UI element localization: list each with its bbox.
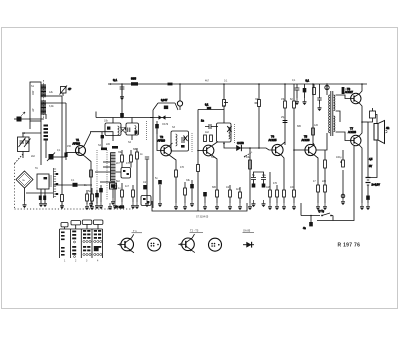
wire speaker down [368, 140, 377, 178]
wire T3 emitter [212, 156, 217, 191]
ecap bottom [309, 215, 313, 227]
svg-text:4Ω: 4Ω [386, 127, 389, 130]
gnd osc3 [113, 202, 117, 209]
resistor near T6 [342, 87, 345, 94]
primary winding [329, 95, 330, 133]
gnd 192 [190, 200, 194, 207]
resistor T3 emitter [216, 190, 219, 203]
wire T6 collector up [360, 84, 362, 94]
cap blob on mid wire left [39, 196, 42, 201]
col3 rings bottom [83, 253, 91, 255]
blob on rail 2 [168, 83, 173, 86]
gnd 297 [295, 98, 299, 105]
capacitor C near rail left [120, 84, 125, 93]
svg-text:4: 4 [97, 260, 99, 263]
wire T7 long down [317, 146, 354, 221]
wire agc vertical long [197, 110, 199, 212]
wire osc stub1 [103, 161, 110, 163]
wire AGC down [62, 93, 64, 96]
trapezoid top [153, 103, 178, 110]
transistor T6 [350, 93, 361, 104]
gnd bus62 [60, 202, 64, 209]
svg-text:220: 220 [106, 143, 111, 146]
wire T1 collector up [84, 132, 113, 146]
ecap osc [99, 185, 103, 202]
svg-text:T1: T1 [76, 138, 80, 142]
svg-text:470: 470 [180, 166, 185, 169]
wire agc feedback [198, 109, 224, 111]
resistor osc1 [121, 150, 124, 168]
ground under C rail left [120, 93, 124, 100]
tuning gang box [18, 137, 30, 152]
gnd 295 [292, 203, 296, 210]
wire T5 collector [313, 143, 314, 145]
pickup element box [37, 174, 49, 189]
svg-text:OA79: OA79 [237, 141, 244, 145]
resistor T3 base1 [204, 135, 207, 142]
coil former box [30, 82, 41, 121]
wire y148 osc [101, 132, 103, 148]
gnd cap2 [262, 200, 266, 207]
legend transistor 2 [178, 234, 195, 253]
gnd 147 [145, 200, 149, 207]
coil bottom wire [45, 114, 47, 119]
wire gang top [23, 133, 41, 137]
ecap 97 [95, 190, 99, 203]
dashed mech link [15, 154, 24, 164]
legend pinout 1 [148, 238, 161, 251]
resistor on drop 259 [255, 100, 261, 107]
resistor T4 em [283, 190, 286, 203]
wire switch right [331, 216, 333, 221]
wire 91 down [90, 188, 92, 200]
osc box small [121, 168, 131, 179]
svg-text:T4: T4 [271, 135, 275, 139]
contact blobs column [44, 125, 49, 141]
gnd 325 [323, 203, 327, 210]
svg-text:3V: 3V [369, 165, 372, 168]
circle component top [121, 83, 182, 110]
gnd T3 em [215, 203, 219, 210]
svg-text:0,1: 0,1 [292, 79, 296, 82]
wire x313 rail down [312, 84, 314, 145]
resistor under T2 [175, 170, 178, 203]
wire antenna to coil [22, 118, 45, 120]
gnd battery [366, 203, 370, 210]
svg-text:33k: 33k [186, 179, 191, 182]
svg-text:2×4,5V: 2×4,5V [372, 183, 381, 187]
svg-text:C1: C1 [22, 132, 26, 135]
antenna arrow [21, 112, 25, 116]
svg-text:100: 100 [290, 186, 295, 189]
osc coil left line [110, 153, 112, 182]
svg-text:12k: 12k [49, 91, 54, 94]
junction y117 [121, 117, 123, 119]
svg-text:1: 1 [64, 260, 66, 263]
left bus x66 [65, 103, 67, 160]
wire x96 elbow [95, 112, 97, 118]
gnd 343 [341, 198, 345, 205]
resistor osc low2 [132, 185, 135, 202]
dotted core IF3 [234, 124, 236, 144]
svg-text:150: 150 [67, 145, 72, 148]
svg-text:10n: 10n [226, 186, 231, 189]
transistor T4 [272, 144, 283, 155]
dashed box bottom edge [15, 208, 134, 210]
svg-text:5k6: 5k6 [88, 190, 93, 193]
variable cap C1b [24, 139, 31, 148]
wire x224 rail down [223, 84, 225, 123]
svg-text:47: 47 [313, 180, 316, 183]
wire bus to T1 base [66, 152, 76, 154]
resistor T3 base2 [210, 135, 213, 142]
svg-text:T 1: T 1 [133, 229, 137, 233]
cap blob trap [164, 106, 168, 110]
gnd 185 [183, 203, 187, 210]
svg-text:0,1: 0,1 [224, 80, 228, 83]
dotted core IF2 [191, 133, 193, 153]
wire T2 base comp [157, 145, 161, 151]
transistor T3 [203, 145, 214, 156]
svg-text:5n: 5n [155, 177, 158, 180]
svg-text:0,1: 0,1 [205, 104, 209, 107]
svg-text:0,1: 0,1 [57, 149, 61, 152]
junction rail 259 [258, 83, 260, 85]
svg-text:10k: 10k [104, 120, 109, 123]
wire x41 down [40, 121, 42, 165]
tab 2 [71, 221, 81, 230]
comb dark taps [56, 173, 59, 195]
resistor on x198 [197, 165, 200, 172]
left bus x62 [61, 96, 63, 208]
junction 362 [361, 121, 363, 123]
IF2 blob [181, 145, 185, 148]
svg-text:4n: 4n [303, 227, 306, 230]
resistor T5 base low [293, 150, 296, 203]
gnd 230 [228, 203, 232, 210]
wire bottom horizontal [301, 215, 320, 217]
trimmer cluster [47, 153, 55, 162]
diode detector [224, 142, 250, 151]
ecap 160 [158, 180, 162, 184]
variable cap C1a [19, 139, 26, 148]
svg-text:3,9k: 3,9k [49, 105, 54, 108]
legend pinout 2 [209, 238, 222, 251]
resistor 343 [342, 150, 345, 167]
coil tap wire right mid [46, 102, 66, 104]
wire x122 rail down [121, 84, 123, 111]
wire x285 rail down [284, 84, 286, 145]
svg-text:0,1: 0,1 [113, 78, 118, 82]
gnd T4 em [282, 203, 286, 210]
secondary winding top [334, 95, 335, 111]
antenna terminal [14, 117, 22, 122]
gnd 362 [360, 203, 364, 210]
col4 rings bottom [94, 253, 102, 255]
wire x270 up [269, 172, 271, 183]
cap under T2 [145, 157, 149, 167]
wire coil left edge down [29, 121, 31, 129]
svg-text:AC126: AC126 [302, 138, 310, 142]
gnd osc5 [131, 202, 135, 209]
svg-text:MW: MW [32, 90, 35, 95]
svg-text:R 197 76: R 197 76 [338, 243, 361, 249]
osc box marks [123, 170, 129, 175]
svg-text:S3: S3 [172, 126, 176, 129]
pot wiper dashed [244, 152, 252, 157]
svg-text:680: 680 [212, 186, 217, 189]
wire 147 [146, 167, 148, 200]
wire pickup bottom right [44, 189, 46, 203]
svg-text:4P: 4P [68, 87, 71, 91]
gnd T1 emitter [89, 200, 93, 207]
coil core dashed [43, 80, 45, 118]
resistor 277 low [276, 185, 279, 203]
wire T3 base left [198, 150, 203, 152]
cap at IF3 left [205, 124, 218, 129]
IF1 box B [126, 123, 139, 135]
shield bottom L [152, 201, 247, 211]
wire osc bottom caps [113, 183, 117, 202]
svg-text:4k7: 4k7 [236, 188, 241, 191]
svg-text:8k2: 8k2 [116, 180, 121, 183]
dotted switch line x107 [106, 150, 108, 200]
gnd 270 [268, 203, 272, 210]
svg-text:4k7: 4k7 [205, 80, 210, 83]
gnd osc coil [111, 198, 115, 205]
wire det down [156, 128, 158, 145]
ecap 192 [190, 180, 194, 200]
components under T2 left [136, 148, 139, 165]
gnd under T2 [135, 202, 139, 209]
junction 343 [340, 161, 342, 163]
svg-text:T5: T5 [304, 135, 308, 139]
svg-text:885: 885 [131, 77, 136, 81]
junction rail 285 [284, 83, 286, 85]
transistor T5 [305, 144, 316, 155]
wire T2 collector [170, 143, 173, 146]
resistor 325 [324, 150, 327, 185]
svg-text:1k: 1k [140, 153, 143, 156]
gnd pickup right [43, 200, 47, 207]
svg-text:100µ: 100µ [336, 156, 342, 159]
svg-text:470: 470 [126, 162, 131, 165]
svg-text:4n7: 4n7 [125, 185, 130, 188]
wire sec mid tap [336, 111, 340, 122]
cap pair 1 [251, 178, 256, 188]
wire right bus down [367, 122, 369, 177]
fuse blob on rail [131, 82, 138, 85]
svg-text:2k7: 2k7 [116, 162, 121, 165]
svg-text:25µ: 25µ [281, 116, 286, 119]
wire T5 emitter [314, 155, 318, 185]
ecap ring 343 [341, 194, 345, 198]
wire T3 collector [212, 142, 218, 146]
svg-text:0,1: 0,1 [71, 179, 75, 182]
boxA bottom lead [112, 136, 114, 142]
col2 contacts top [72, 231, 76, 240]
svg-text:T2 - T5: T2 - T5 [190, 229, 199, 233]
table frame columns [60, 229, 103, 258]
IF2 box [171, 131, 189, 151]
legend diode [243, 242, 254, 248]
osc blobs top [101, 146, 118, 150]
osc coil bottom block [110, 183, 117, 198]
ecap on y185 [73, 183, 78, 187]
ecap mid bottom [143, 185, 147, 189]
IF2 X mark [184, 136, 188, 142]
gnd T5 em [316, 203, 320, 210]
wire mid horizontal [26, 192, 53, 194]
dashed box left edge [14, 164, 16, 210]
svg-text:S7 3104 05: S7 3104 05 [196, 216, 209, 219]
gnd 318 [318, 104, 322, 111]
svg-text:1k2: 1k2 [205, 131, 210, 134]
svg-text:3: 3 [86, 260, 88, 263]
ecap 205 [203, 192, 207, 196]
wire pickup bottom left [40, 189, 42, 203]
ground diamond [23, 201, 27, 208]
gnd cap1 [252, 200, 256, 207]
svg-text:TA: TA [35, 167, 38, 170]
ecap det [155, 121, 159, 134]
svg-text:OA 85: OA 85 [243, 228, 251, 232]
junction rail 313 [312, 83, 314, 85]
tab 1 [61, 223, 68, 230]
boxB top lead [131, 118, 133, 124]
gnd pot [248, 203, 252, 210]
wire osc mid2 [100, 181, 115, 183]
resistor 314 [313, 84, 316, 95]
secondary winding bottom [334, 116, 335, 132]
junction rail 362 [361, 83, 363, 85]
label legend T2-T5 [190, 229, 204, 233]
ecap above boxes [120, 111, 124, 117]
resistor 230 low [229, 185, 232, 203]
svg-text:220: 220 [322, 180, 327, 183]
gnd 205 [203, 203, 207, 210]
table numbers [64, 260, 99, 263]
wire T4 emitter [281, 155, 284, 190]
label legend diode [243, 228, 255, 232]
wire osc mid1 [95, 171, 121, 173]
svg-text:1n: 1n [118, 187, 121, 190]
svg-text:4,5: 4,5 [369, 158, 373, 161]
gnd 160 [158, 200, 162, 207]
osc small box lower [141, 196, 151, 206]
AGC component box [60, 86, 68, 95]
svg-text:2k2: 2k2 [31, 155, 36, 158]
wire gang bottom [22, 152, 24, 159]
wire T7 emitter down [360, 145, 362, 203]
wire under T2 [136, 165, 138, 202]
cap 318 [317, 98, 321, 104]
transformer core [331, 91, 333, 136]
switch contact comb [54, 168, 57, 198]
wire T2 emitter [170, 156, 176, 171]
wire trimmer right [54, 156, 67, 158]
IF1 box A [105, 123, 121, 136]
col1 contacts top [61, 232, 65, 241]
resistor T5 em [317, 185, 320, 203]
resistor osc2 [130, 150, 133, 168]
svg-text:TA: TA [22, 179, 25, 182]
svg-text:LW: LW [32, 108, 35, 112]
wire jack right [376, 115, 378, 124]
col2 contacts bottom [72, 246, 76, 255]
resistor on x285 [284, 101, 287, 108]
svg-text:2: 2 [75, 260, 77, 263]
wire 205 [204, 196, 206, 203]
boxA top lead [112, 118, 114, 124]
svg-text:0,047: 0,047 [161, 98, 168, 102]
svg-text:82: 82 [290, 98, 293, 101]
resistor T1 emitter [90, 170, 93, 177]
IF2 cap [182, 137, 184, 143]
resistor x313 [312, 128, 315, 135]
pot arrow [244, 155, 246, 157]
transistor T2 [161, 145, 172, 156]
gnd 97 [95, 202, 99, 209]
col3 contacts bottom [83, 246, 90, 251]
wire T6 emitter [360, 103, 362, 122]
svg-text:470: 470 [273, 182, 278, 185]
wire caps top [254, 172, 264, 178]
cap blob on mid wire right [43, 196, 46, 201]
svg-text:680: 680 [297, 125, 302, 128]
resistor osc low [121, 183, 124, 202]
svg-text:0,1: 0,1 [306, 79, 310, 83]
coupling arrows [121, 126, 126, 133]
gnd T2 em [174, 203, 178, 210]
IF2 coil [176, 134, 178, 146]
svg-text:AF116: AF116 [158, 139, 166, 143]
cap on x285 [283, 121, 288, 123]
diamond pickup outer [16, 171, 33, 188]
wire pot down [249, 190, 251, 203]
junction 294 [293, 149, 295, 151]
ferrite rod windings [41, 85, 47, 114]
col3 contacts top [83, 230, 90, 239]
resistor 92 [91, 188, 94, 204]
dotted core IF1 [146, 121, 148, 141]
osc coil hatch [111, 153, 116, 182]
ecap battery [366, 196, 370, 204]
resistor on x224 [223, 100, 228, 107]
component value labels [22, 79, 348, 219]
long vertical shield x153 [152, 110, 154, 208]
coil tap wire right top [46, 95, 62, 97]
junction 259 [258, 147, 260, 149]
col3 rings top [83, 240, 91, 242]
wire y117 det [150, 117, 171, 119]
resistor 270 low [269, 183, 272, 203]
wire feed y117 [96, 117, 153, 119]
gnd 87 [85, 203, 89, 210]
gnd 92 [90, 203, 94, 210]
junction efter diode [249, 147, 251, 149]
gnd pickup left [39, 200, 43, 207]
boxA cap blob [107, 127, 110, 130]
svg-text:1k: 1k [84, 184, 87, 187]
transistor T7 [350, 135, 361, 146]
wire T7 collector [360, 122, 362, 136]
wire T1 emitter down [84, 156, 91, 188]
junction T3 base [197, 150, 199, 152]
resistor 185 low [184, 182, 187, 203]
gnd 240 [238, 203, 242, 210]
svg-text:120: 120 [314, 124, 319, 127]
